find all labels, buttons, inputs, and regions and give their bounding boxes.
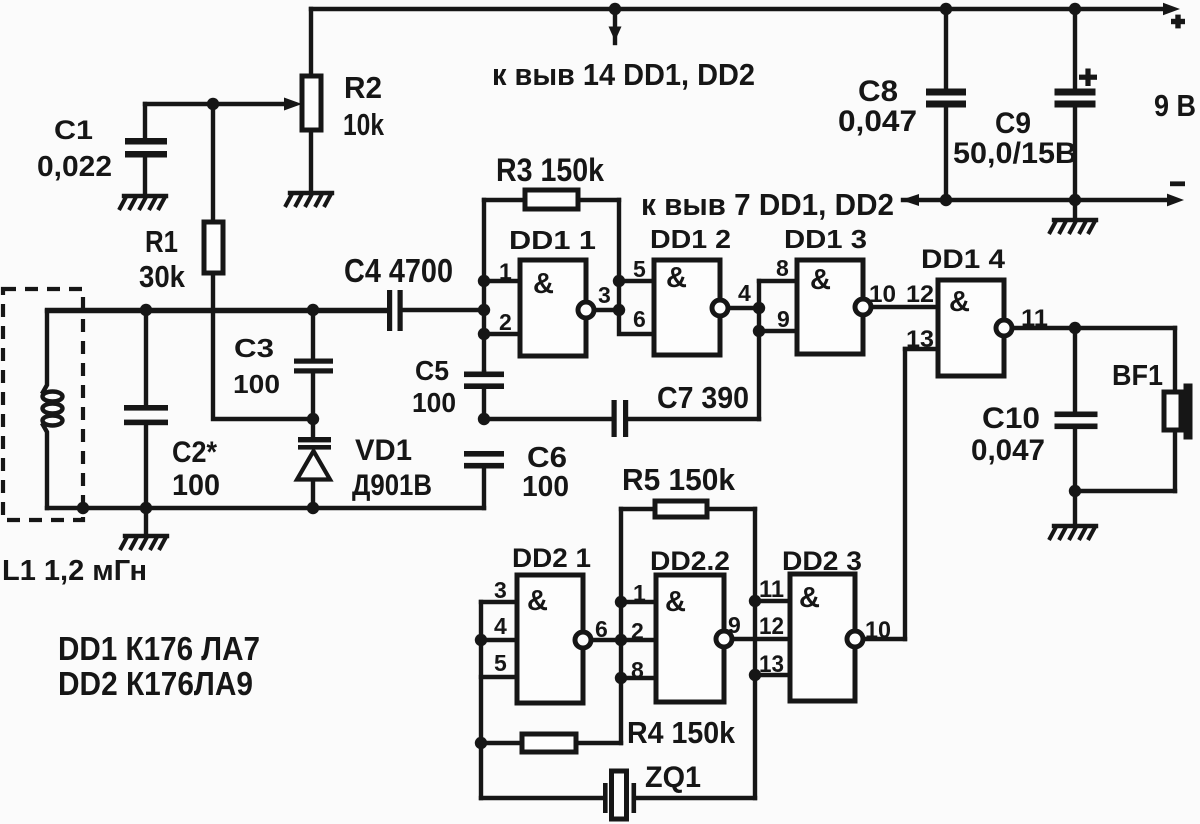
node junction C3 bottom / VD1 top [307, 413, 319, 425]
node junction pin13 DD2.3 [749, 669, 761, 681]
node junction pin1 DD2.2 [615, 596, 627, 608]
svg-text:6: 6 [633, 306, 646, 332]
resistor R3 [484, 198, 525, 202]
capacitor C4 [387, 290, 392, 331]
capacitor C2 [144, 310, 148, 405]
wire DD1.1 output [594, 308, 619, 312]
wire pin5 stub [619, 279, 654, 283]
svg-text:10: 10 [869, 281, 896, 308]
node junction C9 bottom rail [1069, 194, 1081, 206]
wire pin11 stub DD2.3 [755, 599, 790, 603]
node junction pin5 [613, 275, 625, 287]
wire pin8 stub [759, 279, 797, 283]
svg-text:100: 100 [172, 469, 220, 502]
svg-text:2: 2 [631, 618, 644, 644]
node junction R4 left [475, 737, 487, 749]
node junction C5/C6/C7 [478, 413, 490, 425]
wire C4 to DD1.1 inputs [402, 308, 484, 312]
svg-text:50,0/15В: 50,0/15В [953, 137, 1077, 170]
op-amp gate DD1.4 [938, 280, 1004, 376]
wire pin3 stub DD2.1 [481, 600, 517, 604]
node junction pin2 [478, 328, 490, 340]
arrowhead pin14 [609, 27, 622, 42]
svg-text:C2*: C2* [172, 436, 217, 469]
svg-text:&: & [533, 268, 554, 300]
ground C2 [144, 508, 148, 534]
output bubble DD2.1 [575, 632, 591, 648]
svg-text:11: 11 [759, 576, 784, 603]
svg-text:5: 5 [494, 650, 507, 676]
resistor R5 [621, 507, 655, 511]
svg-text:DD1 4: DD1 4 [921, 244, 1005, 274]
output bubble DD1.3 [855, 299, 871, 315]
svg-text:30k: 30k [139, 259, 186, 294]
wire DD1.1 input vertical [482, 200, 486, 372]
node junction C2 bottom [140, 502, 152, 514]
inductor L1 [43, 311, 47, 392]
wire DD2.1 output [591, 638, 621, 642]
svg-text:&: & [810, 264, 831, 296]
svg-text:R4 150k: R4 150k [627, 715, 736, 750]
svg-text:1: 1 [499, 259, 512, 285]
op-amp gate DD2.3 [790, 574, 855, 701]
wire R2 top [309, 9, 313, 76]
svg-text:3: 3 [494, 577, 507, 603]
svg-text:9: 9 [777, 306, 790, 332]
svg-text:0,022: 0,022 [37, 151, 112, 183]
svg-text:BF1: BF1 [1112, 360, 1163, 392]
resistor R1 [211, 104, 215, 222]
svg-text:8: 8 [776, 255, 789, 281]
svg-text:DD1 К176 ЛА7: DD1 К176 ЛА7 [58, 630, 260, 667]
label + (C9) [1079, 75, 1097, 80]
wire pin5 stub DD2.1 [481, 675, 517, 679]
node junction pin2 DD2.2 [615, 634, 627, 646]
wire pin2 stub [484, 332, 520, 336]
svg-text:13: 13 [759, 651, 784, 678]
svg-text:11: 11 [1021, 305, 1048, 332]
svg-text:DD2.2: DD2.2 [650, 546, 730, 576]
svg-text:C5: C5 [415, 355, 449, 386]
wire DD1.4 output [1012, 326, 1175, 330]
svg-text:&: & [665, 586, 686, 618]
wire DD1.4 pin13 vertical [903, 349, 907, 639]
wire +9V top rail [311, 7, 1166, 11]
svg-text:&: & [949, 286, 970, 318]
label + top right [1171, 19, 1185, 24]
wire pin13 stub DD2.3 [755, 673, 790, 677]
wire DD1.2 input vertical [619, 200, 654, 334]
svg-text:&: & [527, 585, 548, 617]
capacitor C10 [1073, 328, 1077, 412]
wire bottom common rail [47, 506, 484, 510]
svg-text:9 В: 9 В [1154, 88, 1196, 123]
svg-text:100: 100 [233, 369, 280, 399]
node junction C8 bottom rail [940, 194, 952, 206]
node junction pin9 [753, 325, 765, 337]
op-amp gate DD1.1 [520, 260, 586, 356]
svg-text:0,047: 0,047 [971, 434, 1045, 467]
svg-text:R3 150k: R3 150k [496, 152, 604, 188]
svg-text:C10: C10 [982, 402, 1040, 435]
capacitor C5 [482, 372, 486, 374]
svg-text:R2: R2 [344, 70, 382, 105]
node junction pin8 DD2.2 [615, 672, 627, 684]
node junction pin1 [478, 275, 490, 287]
svg-text:3: 3 [598, 282, 611, 308]
wire pin9 stub [759, 329, 797, 333]
svg-text:C7 390: C7 390 [657, 380, 749, 415]
wire R2 bottom [309, 130, 313, 191]
output bubble DD1.4 [996, 320, 1012, 336]
wire pin13 stub [905, 347, 938, 351]
op-amp gate DD1.2 [654, 260, 720, 355]
svg-text:Д901В: Д901В [352, 469, 432, 502]
svg-text:ZQ1: ZQ1 [645, 761, 701, 794]
node junction C3 top [307, 304, 319, 316]
node junction DD1.1 input [478, 304, 490, 316]
node junction C9 top rail [1069, 3, 1081, 15]
svg-text:DD2 3: DD2 3 [782, 546, 862, 576]
svg-text:13: 13 [906, 326, 934, 353]
svg-text:2: 2 [499, 309, 512, 335]
node junction C10 bottom [1069, 485, 1081, 497]
op-amp gate DD2.2 [656, 575, 724, 702]
output bubble DD2.2 [716, 631, 732, 647]
wire main node row y=310 [47, 310, 388, 311]
resistor R2 (trimmer) body [302, 76, 321, 130]
node junction C10 top [1069, 322, 1081, 334]
crystal ZQ1 [481, 796, 603, 800]
output bubble DD2.3 [847, 631, 863, 647]
node junction DD1.2 out [753, 302, 765, 314]
diode VD1 (varicap) [311, 419, 315, 437]
svg-text:VD1: VD1 [355, 434, 412, 467]
svg-text:DD2 К176ЛА9: DD2 К176ЛА9 [58, 665, 253, 702]
svg-text:&: & [799, 582, 820, 614]
wire BF1 bottom [1075, 489, 1175, 493]
arrow right end of top rail [1163, 3, 1180, 15]
wire DD2.3 output [863, 637, 905, 641]
arrow left end minus rail [901, 194, 919, 206]
node junction pin4 DD2.1 [475, 634, 487, 646]
svg-text:1: 1 [633, 580, 646, 606]
svg-text:к выв 7 DD1, DD2: к выв 7 DD1, DD2 [641, 187, 894, 222]
wire DD2.3 input vertical [753, 509, 757, 798]
wire wiper arrow into R2 [145, 102, 286, 106]
svg-text:R5 150k: R5 150k [622, 462, 736, 497]
ground C1 [119, 196, 166, 210]
svg-text:к выв 14 DD1, DD2: к выв 14 DD1, DD2 [492, 57, 755, 92]
wire DD2.2 output [732, 637, 790, 641]
svg-text:DD2 1: DD2 1 [512, 543, 591, 573]
svg-text:10k: 10k [343, 107, 385, 142]
L1 dashed box [3, 289, 83, 520]
ground R2 [285, 193, 332, 207]
svg-text:C4 4700: C4 4700 [344, 252, 453, 289]
svg-text:9: 9 [728, 612, 741, 638]
capacitor C6 [464, 451, 504, 457]
capacitor C1 [143, 104, 147, 138]
svg-text:4: 4 [494, 613, 507, 639]
svg-text:DD1 3: DD1 3 [784, 224, 867, 254]
capacitor C3 [311, 310, 315, 359]
wire minus rail [903, 198, 1170, 202]
svg-text:12: 12 [906, 281, 934, 308]
wire DD2.1 input vertical [479, 602, 483, 798]
arrow right end minus rail [1167, 194, 1184, 207]
svg-text:8: 8 [631, 657, 644, 683]
svg-text:DD1 2: DD1 2 [650, 224, 731, 254]
node junction pin11 DD2.3 [749, 595, 761, 607]
svg-text:4: 4 [738, 280, 751, 306]
capacitor C7 [484, 417, 612, 421]
op-amp gate DD2.1 [517, 575, 583, 703]
node junction R1 top [207, 98, 219, 110]
svg-text:10: 10 [865, 617, 891, 644]
svg-text:C9: C9 [995, 107, 1031, 140]
ground C9 [1073, 200, 1077, 218]
wire DD2.2 input vertical [619, 509, 623, 743]
output bubble DD1.1 [578, 302, 594, 318]
svg-text:L1 1,2 мГн: L1 1,2 мГн [2, 555, 147, 587]
node junction dashed box edge [77, 502, 89, 514]
ground C10 [1073, 491, 1077, 524]
svg-text:C3: C3 [234, 333, 274, 363]
svg-text:C8: C8 [858, 75, 898, 108]
svg-text:DD1 1: DD1 1 [509, 225, 596, 255]
wire pin1 stub DD2.2 [621, 600, 656, 604]
wire pin8 stub DD2.2 [621, 676, 656, 680]
wire pin2 stub DD2.2 [621, 638, 656, 642]
label minus right [1170, 181, 1185, 186]
wire DD1.3 input vertical [757, 281, 761, 419]
node junction DD1.1 out [613, 304, 625, 316]
capacitor C8 [944, 9, 948, 89]
node junction VD1 bottom [307, 502, 319, 514]
wire pin1 stub [484, 279, 520, 283]
node junction C2 top [140, 304, 152, 316]
svg-text:100: 100 [412, 387, 456, 418]
node junction top rail at arrow to pin14 [609, 3, 621, 15]
op-amp gate DD1.3 [797, 260, 863, 354]
wire DD1.2 output [728, 306, 759, 310]
speaker BF1 [1173, 328, 1177, 392]
svg-text:100: 100 [522, 471, 569, 503]
node junction C8 top rail [940, 3, 952, 15]
svg-text:&: & [666, 262, 687, 294]
svg-text:C1: C1 [54, 115, 93, 145]
capacitor C9 [1073, 9, 1077, 89]
svg-text:5: 5 [633, 256, 646, 282]
wire pin4 stub DD2.1 [481, 638, 517, 642]
resistor R4 [481, 741, 522, 745]
svg-text:C6: C6 [527, 442, 567, 474]
output bubble DD1.2 [712, 300, 728, 316]
arrowhead R2 wiper [284, 98, 302, 111]
wire DD1.3 output to DD1.4 pin12 [871, 305, 938, 309]
wire arrow stem to pin 14 [613, 9, 617, 43]
svg-text:0,047: 0,047 [838, 105, 917, 138]
svg-text:12: 12 [759, 613, 784, 640]
svg-text:R1: R1 [145, 224, 178, 259]
svg-text:6: 6 [595, 616, 608, 642]
